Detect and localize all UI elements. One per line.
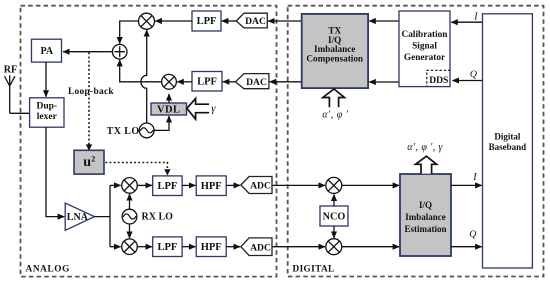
wire ADC upper to digital mixer: [272, 184, 325, 186]
wire TX upper mixer to summer: [120, 21, 139, 44]
LPF TX lower: [192, 72, 222, 92]
mixer digital lower: [326, 239, 342, 255]
wire RX LO to lower mixer: [129, 224, 131, 238]
svg-text:Q: Q: [470, 69, 477, 80]
dotted wire u2 to RX LPF: [106, 163, 171, 176]
svg-text:ADC: ADC: [250, 181, 271, 192]
HPF RX lower: [196, 237, 226, 257]
hollow arrow alpha phi into TXIQ: [323, 89, 345, 107]
wire RX HPF to ADC lower: [226, 246, 240, 248]
IQ imbalance estimation box: [400, 174, 451, 256]
wire VDL to TX lower mixer: [168, 94, 170, 103]
square-law detector u2: [74, 150, 104, 174]
DIGITAL region dashed box: [288, 6, 544, 277]
antenna RF: [4, 65, 17, 114]
wire LPF to TX upper mixer: [155, 20, 192, 22]
DAC upper: [236, 13, 267, 28]
LNA U: amplifier triangle: [65, 203, 94, 230]
svg-text:TX LO: TX LO: [107, 126, 140, 137]
wire LNA to RX mixers split: [95, 185, 111, 246]
svg-text:Generator: Generator: [404, 53, 445, 63]
wire digital mixer upper to estimation: [342, 184, 399, 186]
summer (plus): [112, 44, 127, 59]
ADC upper: [241, 177, 272, 194]
svg-text:RX LO: RX LO: [142, 211, 174, 222]
mixer digital upper: [326, 177, 342, 193]
HPF RX upper: [196, 176, 226, 196]
mixer RX upper: [122, 178, 138, 194]
TX IQ imbalance compensation box: [302, 14, 368, 88]
svg-text:DAC: DAC: [245, 16, 266, 27]
svg-text:lexer: lexer: [37, 112, 58, 122]
mixer TX upper: [139, 13, 155, 29]
svg-text:Signal: Signal: [412, 42, 437, 52]
LPF RX upper: [153, 176, 182, 196]
wire TX LO to upper mixer with hop: [141, 30, 147, 123]
wire split to lower RX mixer: [110, 246, 121, 248]
hollow arrow gamma into VDL: [187, 99, 209, 120]
wire antenna to duplexer: [10, 112, 30, 114]
svg-text:DAC: DAC: [246, 77, 267, 88]
ANALOG region dashed box: [21, 6, 277, 277]
svg-text:LNA: LNA: [67, 212, 89, 223]
wire RX LO to upper mixer: [129, 194, 131, 209]
NCO box: [320, 206, 348, 226]
LPF TX upper: [192, 11, 221, 31]
svg-text:2: 2: [91, 154, 95, 163]
DAC lower: [235, 74, 269, 89]
wire CSG to TXIQ lower: [369, 81, 399, 83]
wire baseband to CSG (I): [451, 21, 482, 23]
svg-text:LPF: LPF: [197, 77, 217, 88]
wire duplexer to LNA: [46, 127, 64, 216]
svg-text:ANALOG: ANALOG: [26, 264, 70, 274]
svg-text:DDS: DDS: [429, 75, 448, 86]
svg-text:Loop-back: Loop-back: [68, 87, 114, 97]
loop-back dotted wire: [86, 53, 92, 151]
wire PA to duplexer: [45, 62, 47, 97]
svg-text:NCO: NCO: [323, 212, 346, 223]
svg-text:LPF: LPF: [157, 242, 177, 253]
svg-text:LPF: LPF: [197, 16, 217, 27]
svg-text:RF: RF: [4, 65, 17, 76]
wire digital mixer lower to estimation: [342, 246, 399, 248]
wire TXIQ to DAC lower: [270, 81, 302, 83]
wire TXIQ to DAC upper: [268, 20, 301, 22]
duplexer: [30, 98, 64, 127]
wire NCO to upper digital mixer: [333, 194, 335, 206]
wire RX LPF to HPF lower: [182, 246, 195, 248]
svg-text:Dup-: Dup-: [37, 101, 58, 111]
DDS box: [427, 70, 451, 86]
wire CSG to TXIQ upper: [369, 20, 399, 22]
wire TX LO to VDL: [154, 116, 169, 130]
wire TX lower mixer to summer: [120, 60, 162, 82]
svg-text:Estimation: Estimation: [404, 224, 446, 234]
svg-text:HPF: HPF: [201, 242, 222, 253]
wire LPF to TX lower mixer: [177, 81, 192, 83]
svg-text:α′, φ ′: α′, φ ′: [322, 110, 348, 121]
LPF RX lower: [153, 237, 182, 257]
svg-text:ADC: ADC: [250, 242, 271, 253]
svg-text:I/Q: I/Q: [419, 200, 432, 210]
svg-text:VDL: VDL: [157, 105, 180, 116]
PA: [32, 39, 62, 62]
svg-text:Calibration: Calibration: [402, 30, 449, 40]
wire DAC to LPF upper: [222, 20, 236, 22]
VDL: [151, 103, 187, 116]
mixer RX lower: [122, 239, 138, 255]
wire RX lower mixer to LPF: [137, 246, 152, 248]
wire DAC to LPF lower: [223, 81, 236, 83]
svg-text:DIGITAL: DIGITAL: [293, 264, 335, 274]
oscillator TX LO: [107, 123, 154, 138]
svg-text:Q: Q: [469, 229, 476, 240]
svg-text:Imbalance: Imbalance: [405, 212, 446, 222]
wire NCO to lower digital mixer: [333, 226, 335, 238]
oscillator RX LO: [122, 209, 173, 224]
svg-text:LPF: LPF: [157, 181, 177, 192]
svg-text:HPF: HPF: [201, 181, 222, 192]
svg-text:α′, φ ′, γ: α′, φ ′, γ: [407, 142, 443, 153]
svg-text:I: I: [472, 172, 477, 183]
svg-text:PA: PA: [41, 46, 54, 57]
svg-text:γ: γ: [211, 102, 216, 114]
wire RX HPF to ADC upper: [226, 184, 240, 186]
svg-text:I: I: [473, 11, 478, 22]
svg-text:Digital: Digital: [494, 132, 520, 142]
calibration signal generator box: [399, 11, 450, 87]
wire split to upper RX mixer: [110, 184, 121, 186]
svg-text:Baseband: Baseband: [489, 142, 527, 152]
wire summer to PA: [63, 51, 112, 53]
hollow arrow alpha phi gamma out of estimation: [416, 156, 437, 173]
wire baseband to DDS (Q): [453, 80, 483, 82]
wire ADC lower to digital mixer: [272, 246, 325, 248]
wire estimation to baseband (I): [451, 184, 482, 186]
ADC lower: [241, 238, 272, 256]
digital baseband box: [483, 14, 533, 268]
wire estimation to baseband (Q): [451, 246, 482, 248]
svg-text:u: u: [83, 155, 91, 170]
wire RX upper mixer to LPF: [137, 184, 152, 186]
wire RX LPF to HPF upper: [182, 184, 195, 186]
mixer TX lower: [162, 74, 177, 89]
svg-text:Compensation: Compensation: [306, 54, 363, 64]
